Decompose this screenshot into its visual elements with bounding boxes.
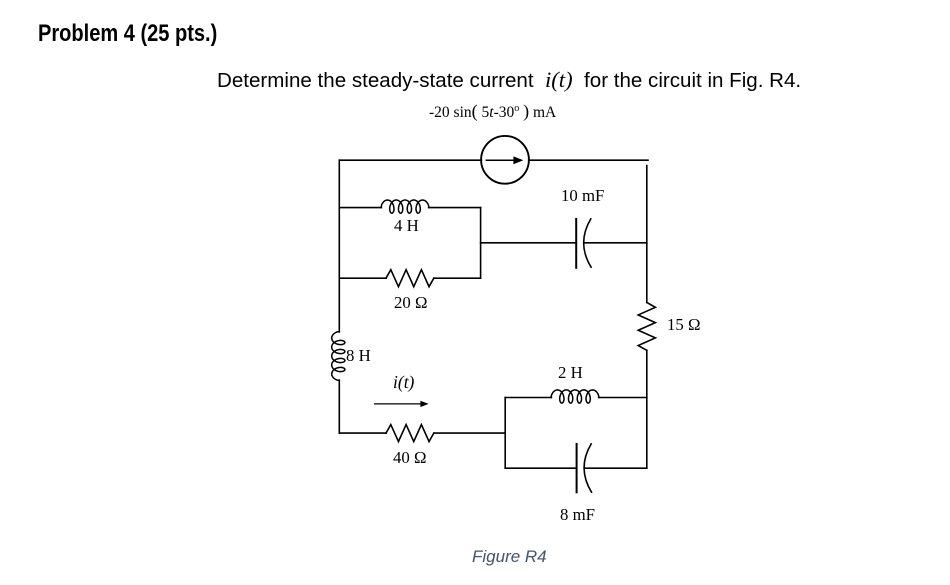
resistor R3 40ohm bbox=[386, 425, 434, 442]
wire right vertical lower bbox=[646, 350, 648, 468]
wire box1 top left stub bbox=[339, 207, 381, 209]
wire left vertical lower bbox=[338, 380, 340, 433]
wire top left bbox=[339, 159, 481, 161]
wire top right bbox=[529, 159, 648, 161]
label 8H bbox=[346, 346, 371, 366]
current source I1 bbox=[481, 136, 529, 184]
wire box1 bottom right stub bbox=[434, 277, 481, 279]
capacitor C2 8mF curved plate bbox=[584, 444, 591, 492]
label 4H bbox=[394, 216, 419, 236]
wire right vertical upper bbox=[646, 166, 648, 303]
resistor R2 15ohm bbox=[638, 303, 655, 351]
wire box2 left edge bbox=[504, 398, 506, 469]
label 10mF bbox=[561, 186, 604, 206]
label 20ohm bbox=[394, 293, 427, 313]
wire box2 top right stub bbox=[599, 397, 647, 399]
label 15ohm bbox=[667, 315, 700, 335]
figure caption bbox=[472, 547, 547, 567]
wire box1 bottom left stub bbox=[339, 277, 386, 279]
problem title bbox=[38, 20, 217, 48]
label i(t) bbox=[393, 372, 414, 393]
resistor R1 20ohm bbox=[386, 270, 434, 287]
label 2H bbox=[558, 363, 583, 383]
wire box1 right edge bbox=[480, 208, 482, 279]
source value label bbox=[429, 101, 556, 122]
component value labels bbox=[0, 0, 1, 1]
label 8mF bbox=[560, 505, 595, 525]
wire left vertical upper bbox=[338, 160, 340, 332]
current arrow i(t) bbox=[375, 401, 429, 407]
wire box2 top left stub bbox=[505, 397, 551, 399]
instruction line bbox=[217, 67, 801, 93]
capacitor C1 10mF plate bbox=[575, 219, 577, 268]
label 40ohm bbox=[393, 448, 426, 468]
capacitor C2 8mF plate bbox=[576, 444, 578, 492]
inductor L1 4H bbox=[381, 200, 429, 213]
wire bottom to box2 bbox=[434, 432, 505, 434]
wire box2 bottom left stub bbox=[505, 467, 576, 469]
wire box1 top right stub bbox=[429, 207, 481, 209]
wire middle to cap bbox=[481, 242, 576, 244]
wire bottom left stub bbox=[339, 432, 386, 434]
inductor L3 8H bbox=[332, 332, 345, 381]
inductor L2 2H bbox=[551, 390, 599, 403]
capacitor C1 10mF curved plate bbox=[584, 219, 591, 267]
wire cap to right bbox=[584, 242, 647, 244]
wire cap2 to right bbox=[584, 467, 646, 469]
